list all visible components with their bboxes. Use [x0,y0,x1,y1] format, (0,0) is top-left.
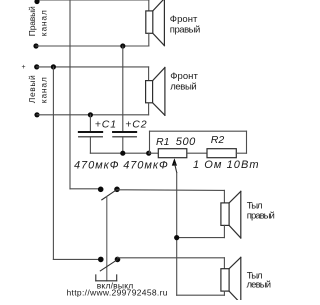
wire capacitor bottom bus [90,152,148,154]
wiper arrow of R1 [172,158,177,295]
node left channel minus terminal [34,112,39,117]
node junction C2 top on right minus line [120,43,125,48]
wire C2 top lead vertical [122,46,124,132]
svg-text:Фронт: Фронт [170,14,198,25]
node right channel plus terminal [34,0,39,4]
wire left channel minus line [37,114,149,116]
wire rear right speaker minus to wiper line [177,237,225,239]
wire loop from R2 right around to R1 left [150,131,247,153]
svg-text:правый: правый [247,210,275,221]
switch bottom contacts [98,257,104,263]
wire top bus right channel plus [37,0,149,1]
svg-text:Фронт: Фронт [170,71,198,82]
speaker front left coil [146,67,165,115]
speaker rear right coil [221,191,241,238]
svg-text:1 Ом 10Вт: 1 Ом 10Вт [193,159,259,171]
svg-text:R1: R1 [156,136,169,148]
svg-text:левый: левый [247,280,272,291]
wire right channel minus line [36,45,149,47]
node junction wiper and rear right minus [174,235,179,240]
switch top contacts [98,187,104,193]
wire vertical from right channel plus down to switch [69,0,71,189]
wire left channel plus line [37,66,149,68]
node junction C1 top on left minus line [88,112,93,117]
wire vertical from left plus down to bottom switch [52,67,54,260]
svg-text:правый: правый [170,24,201,35]
node junction R1 left and loop wire [146,151,151,156]
node junction C2 bottom [120,151,125,156]
switch bracket [96,275,117,281]
svg-text:Левый: Левый [27,75,37,103]
wire to bottom switch left contact [53,258,100,260]
node right channel minus terminal [33,43,38,48]
capacitor C1 [79,115,102,153]
svg-text:канал: канал [39,77,49,103]
switch bottom lever [100,260,117,271]
speaker front right coil [146,0,165,46]
svg-text:Правый: Правый [27,6,37,36]
svg-text:+: + [22,64,26,71]
svg-text:470мкФ: 470мкФ [123,160,168,172]
svg-text:+C1: +C1 [95,119,117,131]
node junction on left plus line [51,64,56,69]
wire from bottom switch to rear left speaker [118,257,225,259]
svg-text:+C2: +C2 [125,119,147,131]
node left channel plus terminal [34,64,39,69]
wire rear left speaker minus to wiper line [177,294,225,296]
wire to top switch left contact [70,188,101,190]
resistor R2 [207,149,247,158]
svg-text:канал: канал [39,10,49,36]
resistor R1 potentiometer [149,149,207,158]
svg-text:http://www.299792458.ru: http://www.299792458.ru [67,288,168,298]
speaker rear left coil [221,257,241,303]
switch link line [106,197,108,281]
svg-text:R2: R2 [211,134,225,146]
wire from top switch to rear right speaker [117,189,224,192]
svg-text:левый: левый [170,82,197,93]
switch top lever [102,190,117,200]
svg-text:470мкФ: 470мкФ [74,160,119,172]
svg-text:500: 500 [176,136,196,148]
capacitor C2 [113,132,136,153]
